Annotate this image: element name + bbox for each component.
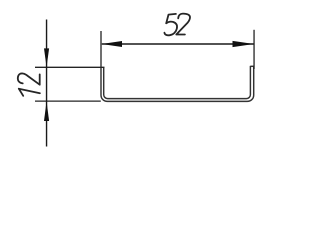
arrowhead right (52 dim) xyxy=(233,41,254,47)
extension line top (12 dim, upper) xyxy=(35,66,105,68)
dimension line 12 (vertical) xyxy=(46,20,48,147)
dimension text 52 xyxy=(164,14,190,36)
profile right wall top end cap xyxy=(250,65,253,67)
arrowhead down (12 dim top) xyxy=(44,48,49,67)
extension line bottom (12 dim, lower) xyxy=(35,100,101,102)
profile outer contour (sheet-metal U-channel outer surface) xyxy=(101,66,254,102)
extension line left (52 dim) xyxy=(100,31,102,67)
arrowhead left (52 dim) xyxy=(102,41,123,47)
dimension text 12 (rotated) xyxy=(18,73,40,95)
dimension line 52 (horizontal) xyxy=(102,43,254,45)
extension line right (52 dim) xyxy=(253,30,255,69)
arrowhead up (12 dim bottom) xyxy=(44,101,49,121)
profile inner contour (sheet-metal U-channel inner surface) xyxy=(104,66,251,99)
